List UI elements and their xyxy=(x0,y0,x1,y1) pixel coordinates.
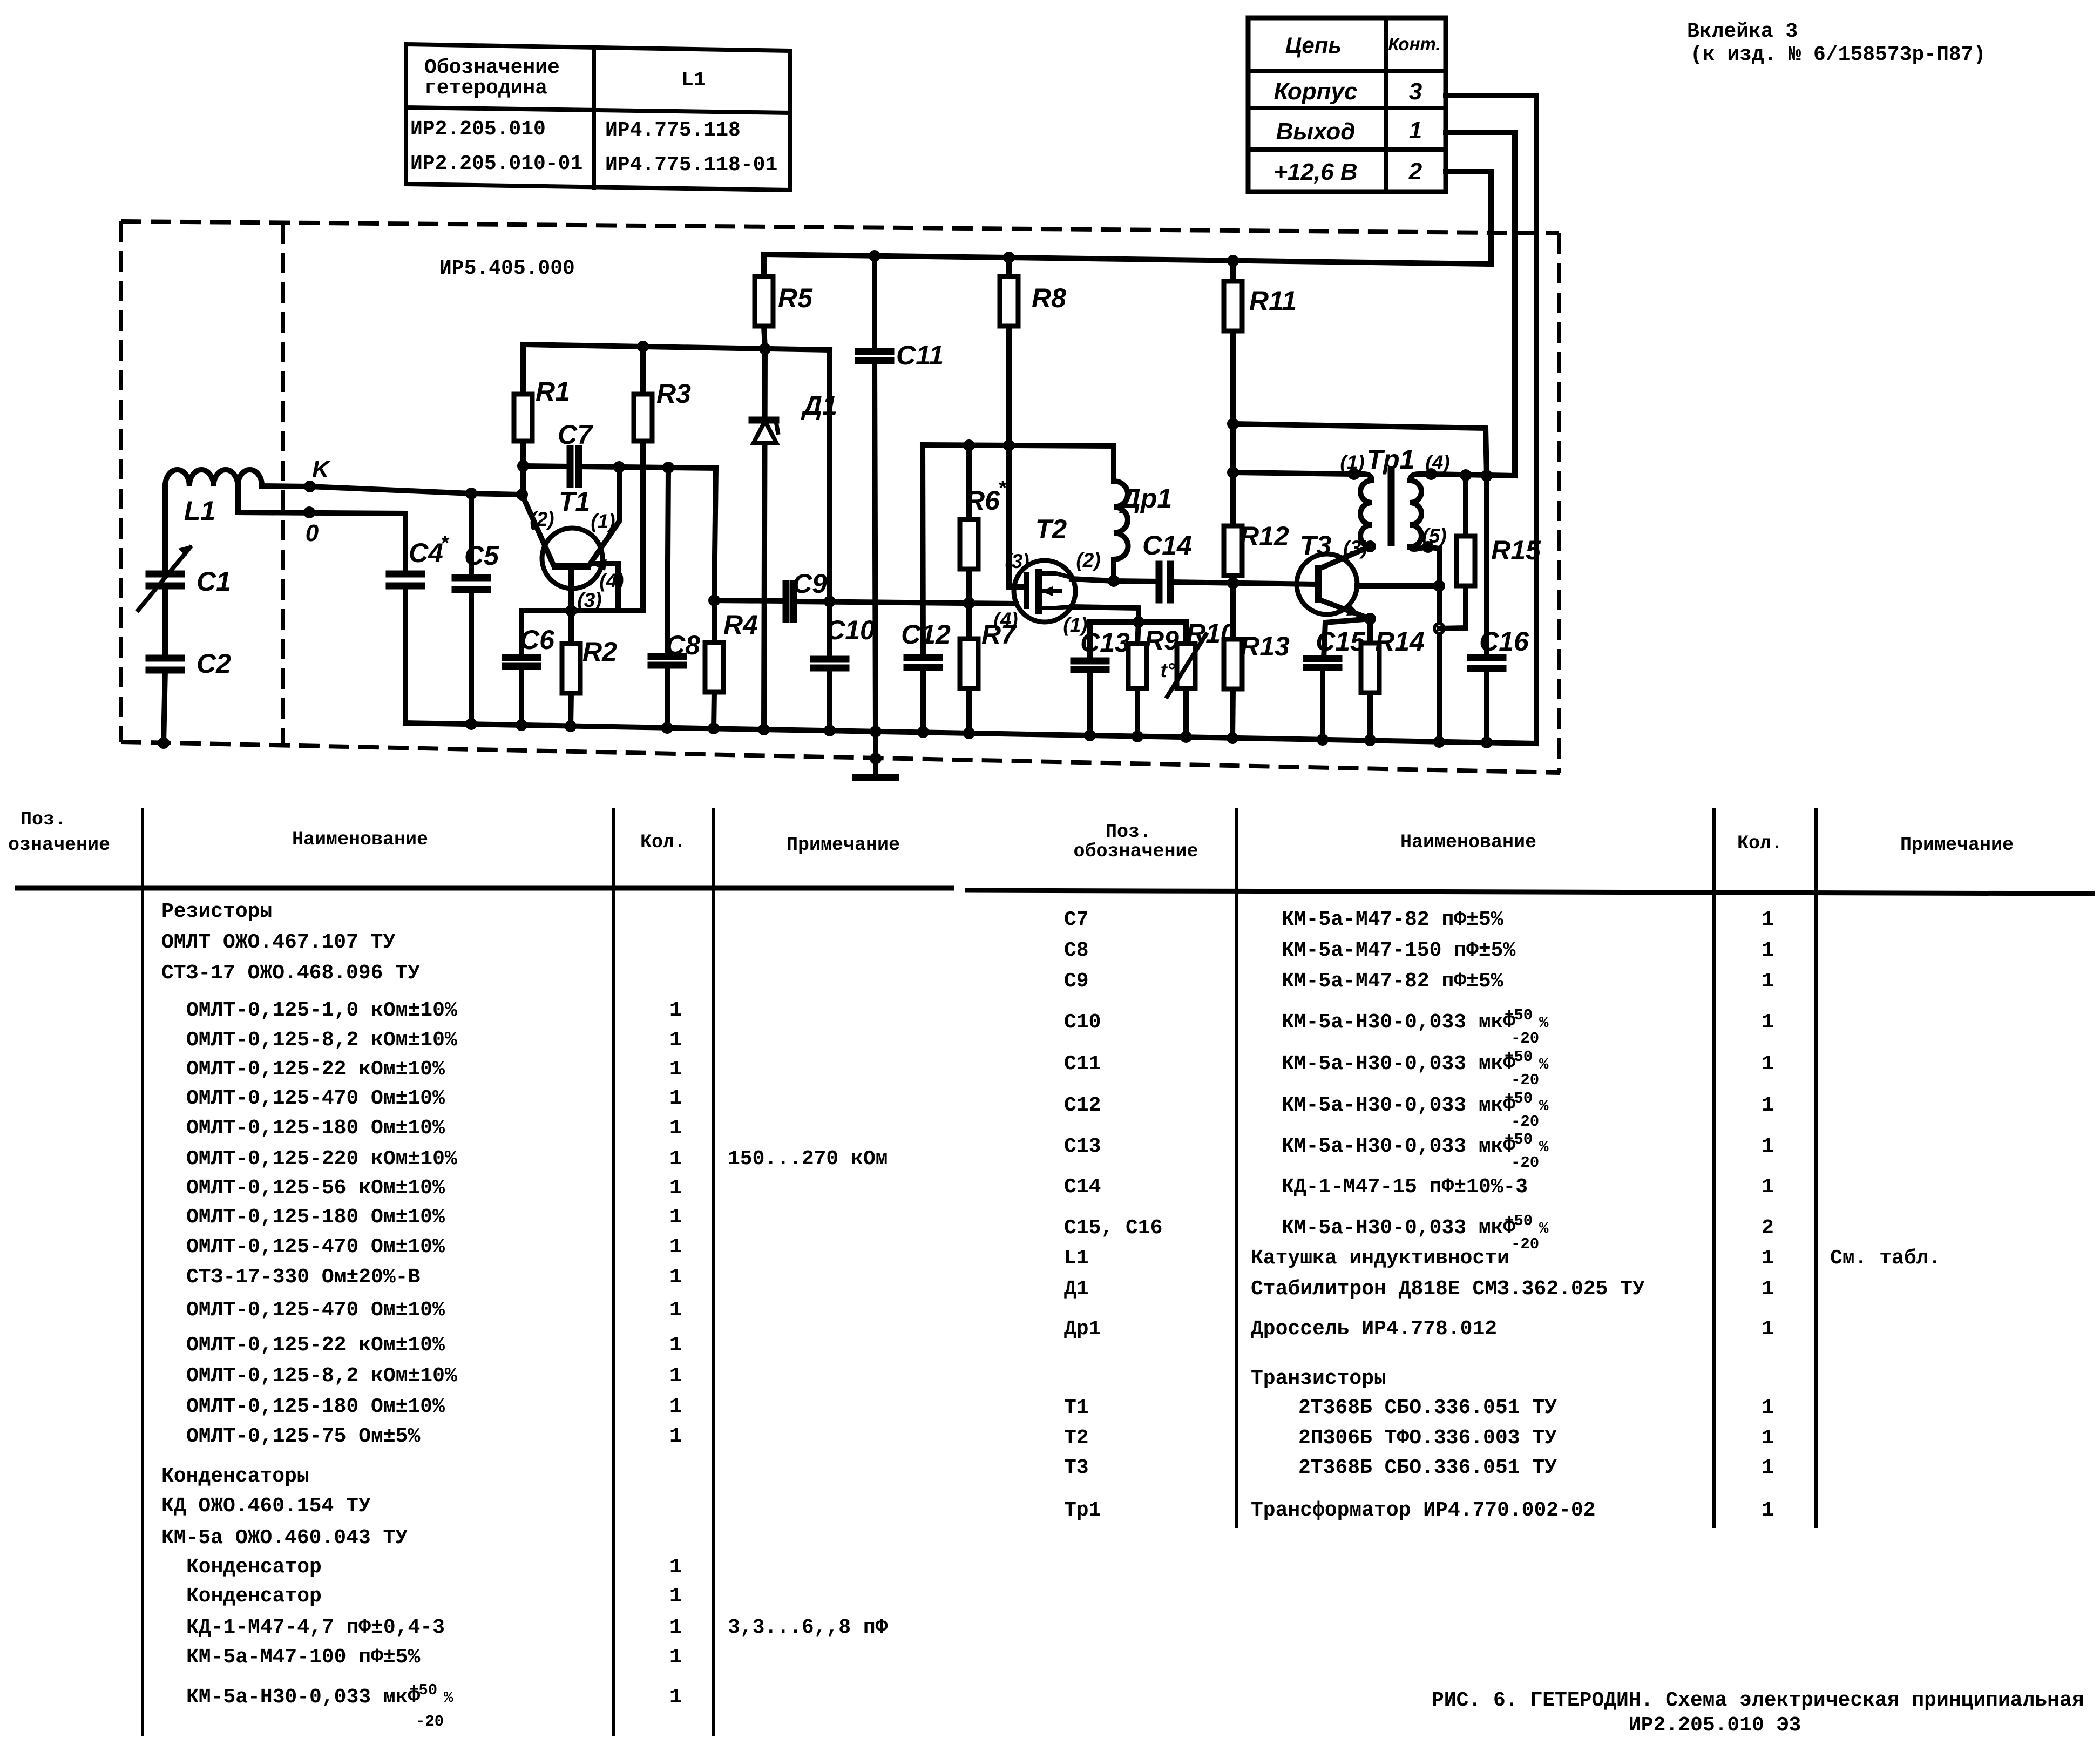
svg-text:1: 1 xyxy=(1409,117,1422,144)
node K xyxy=(304,456,331,492)
node R5 bottom / D1 top xyxy=(759,343,771,355)
svg-text:1: 1 xyxy=(669,1117,682,1140)
svg-text:1: 1 xyxy=(1762,908,1774,931)
svg-text:КМ-5а-Н30-0,033 мкФ: КМ-5а-Н30-0,033 мкФ xyxy=(1282,1216,1515,1240)
svg-text:1: 1 xyxy=(669,1235,682,1259)
node T1 collector top xyxy=(613,461,625,473)
svg-text:1: 1 xyxy=(669,1556,682,1579)
svg-text:3: 3 xyxy=(1409,78,1422,105)
svg-text:R11: R11 xyxy=(1249,286,1297,316)
svg-text:Катушка индуктивности: Катушка индуктивности xyxy=(1251,1247,1509,1270)
resistor R14 xyxy=(1361,619,1425,740)
svg-text:ОМЛТ-0,125-470 Ом±10%: ОМЛТ-0,125-470 Ом±10% xyxy=(186,1299,445,1322)
svg-text:-20: -20 xyxy=(1511,1030,1539,1047)
svg-text:КМ-5а-Н30-0,033 мкФ: КМ-5а-Н30-0,033 мкФ xyxy=(1282,1011,1515,1034)
node source row xyxy=(1133,616,1144,628)
resistor R8 xyxy=(1000,258,1066,445)
svg-text:КМ-5а ОЖО.460.043 ТУ: КМ-5а ОЖО.460.043 ТУ xyxy=(161,1526,408,1550)
svg-text:%: % xyxy=(1539,1138,1549,1156)
node Tp1 secondary top xyxy=(1425,468,1437,480)
heterodyne designation table xyxy=(406,44,790,190)
node R3 top xyxy=(637,341,649,353)
svg-text:ИР2.205.010: ИР2.205.010 xyxy=(410,118,546,141)
connector table Цепь/Конт. xyxy=(1248,18,1446,192)
svg-text:L1: L1 xyxy=(1064,1247,1089,1270)
svg-text:(к изд. № 6/158573р-П87): (к изд. № 6/158573р-П87) xyxy=(1690,43,1986,66)
wire R8 to T2 gate xyxy=(1009,445,1027,587)
svg-text:С14: С14 xyxy=(1064,1175,1101,1199)
svg-text:2П306Б ТФО.336.003 ТУ: 2П306Б ТФО.336.003 ТУ xyxy=(1298,1426,1557,1450)
wire T2 drain line W3 xyxy=(1072,579,1318,584)
svg-text:+50: +50 xyxy=(1505,1006,1533,1024)
resistor R3 xyxy=(634,347,691,611)
transistor T3 xyxy=(1297,530,1370,619)
svg-text:R13: R13 xyxy=(1240,631,1290,661)
svg-text:R15: R15 xyxy=(1491,535,1541,565)
svg-text:R4: R4 xyxy=(723,610,758,640)
svg-text:Поз.: Поз. xyxy=(1106,821,1151,843)
svg-text:С8: С8 xyxy=(1064,939,1089,962)
svg-text:R5: R5 xyxy=(778,283,813,313)
svg-text:R2: R2 xyxy=(582,637,617,667)
svg-text:1: 1 xyxy=(1762,1175,1774,1199)
resistor R9 xyxy=(1128,622,1179,736)
svg-text:ОМЛТ-0,125-8,2 кОм±10%: ОМЛТ-0,125-8,2 кОм±10% xyxy=(186,1029,457,1052)
wire emitter row C6 to T1 xyxy=(521,611,618,658)
svg-text:C2: C2 xyxy=(197,648,231,679)
svg-text:РИС. 6. ГЕТЕРОДИН. Схема элект: РИС. 6. ГЕТЕРОДИН. Схема электрическая п… xyxy=(1432,1689,2084,1712)
node T1 base branch xyxy=(516,489,528,501)
svg-text:(4): (4) xyxy=(993,608,1018,631)
svg-text:C10: C10 xyxy=(825,615,875,645)
svg-text:1: 1 xyxy=(669,1425,682,1448)
resistor R13 xyxy=(1224,583,1290,738)
svg-text:%: % xyxy=(444,1689,453,1707)
svg-text:C6: C6 xyxy=(520,625,555,655)
svg-text:-20: -20 xyxy=(1511,1154,1539,1172)
svg-text:1: 1 xyxy=(1762,1052,1774,1076)
svg-text:Конденсатор: Конденсатор xyxy=(186,1585,322,1608)
svg-text:Примечание: Примечание xyxy=(787,834,900,856)
wire C5 leads xyxy=(469,493,474,724)
svg-text:150...270 кОм: 150...270 кОм xyxy=(728,1147,888,1171)
svg-text:+12,6 В: +12,6 В xyxy=(1273,159,1357,185)
node on R11/R12 vertical xyxy=(1227,466,1239,478)
svg-text:-20: -20 xyxy=(416,1713,444,1730)
wire W2 R1/R3/R5 tops xyxy=(523,344,830,350)
svg-text:C1: C1 xyxy=(197,566,231,597)
svg-text:3,3...6,,8 пФ: 3,3...6,,8 пФ xyxy=(728,1616,888,1639)
svg-text:С7: С7 xyxy=(1064,908,1089,931)
svg-text:1: 1 xyxy=(669,1087,682,1110)
svg-text:ИР5.405.000: ИР5.405.000 xyxy=(439,257,575,280)
svg-text:C13: C13 xyxy=(1080,627,1130,658)
svg-text:R8: R8 xyxy=(1032,283,1066,313)
svg-text:(4): (4) xyxy=(599,570,624,592)
wire tap O of L1 down and right to C4 xyxy=(238,486,405,574)
svg-text:Поз.: Поз. xyxy=(21,809,66,830)
node R8 bottom on W4 xyxy=(1003,439,1015,451)
svg-text:Резисторы: Резисторы xyxy=(161,900,272,923)
svg-text:2Т368Б СБО.336.051 ТУ: 2Т368Б СБО.336.051 ТУ xyxy=(1298,1396,1557,1419)
svg-text:Т1: Т1 xyxy=(1064,1396,1089,1419)
svg-text:1: 1 xyxy=(669,999,682,1022)
wire W4 choke feed line xyxy=(923,445,1114,446)
svg-text:С11: С11 xyxy=(1064,1052,1101,1076)
svg-text:Др1: Др1 xyxy=(1119,483,1172,513)
svg-text:Конт.: Конт. xyxy=(1388,34,1440,54)
node R11 bottom xyxy=(1227,418,1239,430)
svg-text:ИР2.205.010-01: ИР2.205.010-01 xyxy=(410,152,582,175)
svg-text:-20: -20 xyxy=(1511,1235,1539,1253)
svg-text:t°: t° xyxy=(1160,659,1175,681)
svg-text:1: 1 xyxy=(1762,1317,1774,1341)
wire C1 to C2 xyxy=(162,586,168,658)
node T3 emitter xyxy=(1364,613,1376,625)
thermistor R10 xyxy=(1160,618,1236,737)
svg-text:R1: R1 xyxy=(536,376,570,407)
wire T3 case pin to (5) line xyxy=(1357,583,1439,589)
svg-text:*: * xyxy=(441,532,449,554)
svg-text:C15: C15 xyxy=(1316,626,1366,657)
node chassis xyxy=(158,737,170,749)
svg-text:ОМЛТ-0,125-180 Ом±10%: ОМЛТ-0,125-180 Ом±10% xyxy=(186,1206,445,1229)
node C8 top xyxy=(662,462,674,474)
svg-text:С12: С12 xyxy=(1064,1094,1101,1117)
dashed internal partition xyxy=(281,223,285,746)
svg-text:КМ-5а-Н30-0,033 мкФ: КМ-5а-Н30-0,033 мкФ xyxy=(1282,1094,1515,1117)
svg-text:R3: R3 xyxy=(656,378,691,409)
junction dots on ground bus xyxy=(465,718,1493,748)
svg-text:КМ-5а-Н30-0,033 мкФ: КМ-5а-Н30-0,033 мкФ xyxy=(1282,1135,1515,1158)
svg-text:2Т368Б СБО.336.051 ТУ: 2Т368Б СБО.336.051 ТУ xyxy=(1298,1456,1557,1479)
svg-text:1: 1 xyxy=(669,1616,682,1639)
svg-text:ОМЛТ ОЖО.467.107 ТУ: ОМЛТ ОЖО.467.107 ТУ xyxy=(161,931,395,954)
ground symbol xyxy=(852,732,899,777)
wire pin1 Выход to output node xyxy=(1446,132,1515,476)
svg-text:+50: +50 xyxy=(1505,1048,1533,1066)
svg-text:C9: C9 xyxy=(792,569,827,599)
svg-text:Стабилитрон Д818Е СМЗ.362.025: Стабилитрон Д818Е СМЗ.362.025 ТУ xyxy=(1251,1277,1645,1301)
svg-text:R14: R14 xyxy=(1375,626,1425,657)
output line with Tp1 (4), R15, C16 xyxy=(1431,474,1515,476)
svg-text:гетеродина: гетеродина xyxy=(424,77,547,100)
svg-text:Цепь: Цепь xyxy=(1285,32,1342,58)
inductor L1 xyxy=(165,470,262,526)
svg-text:Кол.: Кол. xyxy=(640,831,686,853)
svg-text:L1: L1 xyxy=(681,69,706,92)
wire W1 base line with C7 xyxy=(523,466,716,468)
svg-text:Др1: Др1 xyxy=(1064,1317,1101,1341)
capacitor C14 xyxy=(1142,530,1192,600)
svg-text:%: % xyxy=(1539,1056,1549,1073)
svg-text:Т3: Т3 xyxy=(1064,1456,1089,1479)
svg-text:1: 1 xyxy=(1762,1247,1774,1270)
svg-text:Конденсаторы: Конденсаторы xyxy=(161,1465,309,1488)
svg-text:T2: T2 xyxy=(1035,514,1067,544)
svg-text:(2): (2) xyxy=(530,508,554,530)
capacitor C16 xyxy=(1471,476,1529,742)
svg-text:T3: T3 xyxy=(1300,530,1332,560)
svg-text:+50: +50 xyxy=(1505,1090,1533,1107)
svg-text:1: 1 xyxy=(1762,1135,1774,1158)
svg-text:Корпус: Корпус xyxy=(1274,78,1358,105)
svg-text:Конденсатор: Конденсатор xyxy=(186,1556,322,1579)
node R4 top xyxy=(708,594,720,606)
svg-text:Обозначение: Обозначение xyxy=(424,56,560,79)
figure caption xyxy=(1432,1689,2084,1737)
node Tp1 primary top xyxy=(1348,468,1360,480)
inset note Вклейка 3 xyxy=(1687,20,1986,66)
dashed enclosure border xyxy=(121,221,1560,773)
wire collector feed to Tp1 primary xyxy=(1233,472,1354,474)
wire C2 to chassis point on border xyxy=(164,670,165,743)
transformer Tp1 xyxy=(1340,444,1449,549)
svg-text:1: 1 xyxy=(1762,1094,1774,1117)
svg-text:K: K xyxy=(312,456,331,483)
node signal/C10 xyxy=(824,596,836,607)
svg-text:C4: C4 xyxy=(409,538,443,568)
wire C4 to ground bus xyxy=(403,586,408,723)
svg-text:R6: R6 xyxy=(965,485,1000,516)
svg-text:%: % xyxy=(1539,1097,1549,1115)
svg-text:С13: С13 xyxy=(1064,1135,1101,1158)
svg-text:Транзисторы: Транзисторы xyxy=(1251,1367,1386,1390)
svg-text:2: 2 xyxy=(1408,158,1422,185)
svg-text:ОМЛТ-0,125-1,0 кОм±10%: ОМЛТ-0,125-1,0 кОм±10% xyxy=(186,999,457,1022)
wire R11 bottom to output node xyxy=(1233,424,1487,476)
svg-text:2: 2 xyxy=(1762,1216,1774,1240)
svg-text:(2): (2) xyxy=(1076,549,1100,571)
svg-text:1: 1 xyxy=(1762,1396,1774,1419)
wire node K from L1 to T1 base branch xyxy=(262,486,522,495)
svg-text:обозначение: обозначение xyxy=(1073,841,1198,862)
svg-text:Т2: Т2 xyxy=(1064,1426,1089,1450)
svg-text:Трансформатор ИР4.770.002-02: Трансформатор ИР4.770.002-02 xyxy=(1251,1499,1596,1522)
node T3 collector / primary bottom xyxy=(1364,540,1376,552)
svg-text:L1: L1 xyxy=(184,496,215,526)
capacitor C9 xyxy=(786,569,827,619)
node C11 top on rail xyxy=(869,250,880,262)
resistor R1 xyxy=(514,344,570,466)
svg-text:%: % xyxy=(1539,1014,1549,1032)
svg-text:Вклейка 3: Вклейка 3 xyxy=(1687,20,1798,43)
zener diode Д1 xyxy=(752,349,837,729)
node O xyxy=(303,506,319,546)
svg-text:ОМЛТ-0,125-8,2 кОм±10%: ОМЛТ-0,125-8,2 кОм±10% xyxy=(186,1364,457,1388)
wire signal line with C9 xyxy=(714,600,1016,604)
capacitor C2 xyxy=(149,648,231,679)
svg-text:C11: C11 xyxy=(896,340,944,370)
svg-text:СТЗ-17 ОЖО.468.096 ТУ: СТЗ-17 ОЖО.468.096 ТУ xyxy=(161,962,420,985)
capacitor C11 xyxy=(858,256,944,732)
node T1 emitter junction xyxy=(565,605,577,617)
svg-text:R9: R9 xyxy=(1144,625,1179,655)
svg-text:С15, С16: С15, С16 xyxy=(1064,1216,1162,1240)
transistor T2 MOSFET xyxy=(993,514,1100,636)
svg-text:КМ-5а-М47-82 пФ±5%: КМ-5а-М47-82 пФ±5% xyxy=(1282,970,1503,993)
svg-text:ОМЛТ-0,125-56 кОм±10%: ОМЛТ-0,125-56 кОм±10% xyxy=(186,1176,445,1200)
wire pin3 Корпус to ground bus xyxy=(1446,96,1536,743)
svg-text:1: 1 xyxy=(669,1646,682,1669)
svg-text:Д1: Д1 xyxy=(1064,1277,1089,1301)
svg-text:(1): (1) xyxy=(591,510,615,532)
capacitor C5 xyxy=(455,540,499,590)
svg-text:ОМЛТ-0,125-180 Ом±10%: ОМЛТ-0,125-180 Ом±10% xyxy=(186,1395,445,1418)
svg-text:+50: +50 xyxy=(409,1681,437,1699)
svg-text:С9: С9 xyxy=(1064,970,1089,993)
svg-text:1: 1 xyxy=(1762,1456,1774,1479)
node R8 top on rail xyxy=(1003,252,1015,263)
svg-text:1: 1 xyxy=(669,1266,682,1289)
resistor R7 xyxy=(960,603,1017,733)
svg-text:См. табл.: См. табл. xyxy=(1830,1247,1941,1270)
capacitor C12 xyxy=(901,619,951,667)
node R15 top xyxy=(1460,469,1472,481)
resistor R6* xyxy=(960,445,1007,603)
left parts table frame xyxy=(8,808,954,1736)
svg-text:КД-1-М47-15 пФ±10%-3: КД-1-М47-15 пФ±10%-3 xyxy=(1282,1175,1528,1199)
svg-text:КМ-5а-М47-82 пФ±5%: КМ-5а-М47-82 пФ±5% xyxy=(1282,908,1503,931)
wire W1 corner down to signal node xyxy=(714,468,716,600)
svg-text:C7: C7 xyxy=(558,420,593,450)
svg-text:1: 1 xyxy=(669,1029,682,1052)
wire C12 vertical xyxy=(923,445,923,732)
svg-text:+50: +50 xyxy=(1505,1212,1533,1230)
svg-text:ОМЛТ-0,125-470 Ом±10%: ОМЛТ-0,125-470 Ом±10% xyxy=(186,1087,445,1110)
svg-text:ИР4.775.118-01: ИР4.775.118-01 xyxy=(605,153,777,177)
svg-text:ОМЛТ-0,125-180 Ом±10%: ОМЛТ-0,125-180 Ом±10% xyxy=(186,1117,445,1140)
svg-text:ИР4.775.118: ИР4.775.118 xyxy=(605,119,741,142)
capacitor C15 xyxy=(1306,619,1370,740)
svg-text:0: 0 xyxy=(306,520,319,546)
svg-text:Дроссель ИР4.778.012: Дроссель ИР4.778.012 xyxy=(1251,1317,1497,1341)
right parts table rows xyxy=(1064,908,1941,1522)
svg-text:1: 1 xyxy=(669,1299,682,1322)
resistor R15 xyxy=(1439,475,1541,628)
svg-text:C14: C14 xyxy=(1142,530,1192,560)
svg-text:1: 1 xyxy=(669,1585,682,1608)
svg-text:(3): (3) xyxy=(1005,550,1029,572)
node R6 top xyxy=(963,439,975,451)
svg-text:1: 1 xyxy=(669,1206,682,1229)
svg-text:-20: -20 xyxy=(1511,1071,1539,1089)
wire R5 node down through C10 to bus xyxy=(827,350,832,731)
node R6/R7 divider on signal line xyxy=(963,597,975,609)
wire pin2 +12,6V to supply rail xyxy=(1446,172,1491,264)
wire R11 to R12 vertical xyxy=(1230,424,1236,526)
svg-text:ОМЛТ-0,125-22 кОм±10%: ОМЛТ-0,125-22 кОм±10% xyxy=(186,1058,445,1081)
svg-text:Тр1: Тр1 xyxy=(1064,1499,1101,1522)
svg-text:Кол.: Кол. xyxy=(1737,833,1783,854)
svg-text:Примечание: Примечание xyxy=(1900,834,2014,856)
svg-text:Наименование: Наименование xyxy=(292,829,428,850)
svg-text:(3): (3) xyxy=(577,589,601,611)
right parts table frame xyxy=(965,808,2095,1528)
svg-text:ОМЛТ-0,125-75 Ом±5%: ОМЛТ-0,125-75 Ом±5% xyxy=(186,1425,420,1448)
node R15 bottom junction xyxy=(1434,624,1444,633)
svg-text:С10: С10 xyxy=(1064,1011,1101,1034)
transistor T1 xyxy=(522,468,643,611)
svg-text:КД-1-М47-4,7 пФ±0,4-3: КД-1-М47-4,7 пФ±0,4-3 xyxy=(186,1616,445,1639)
svg-text:Выход: Выход xyxy=(1276,118,1356,145)
node case line xyxy=(1433,580,1445,592)
svg-text:1: 1 xyxy=(1762,1277,1774,1301)
svg-text:*: * xyxy=(998,477,1007,499)
svg-text:-20: -20 xyxy=(1511,1113,1539,1131)
svg-text:C12: C12 xyxy=(901,619,951,650)
node Tp1 secondary bottom (5) xyxy=(1422,541,1434,553)
svg-text:1: 1 xyxy=(669,1058,682,1081)
capacitor C7 xyxy=(558,420,593,484)
svg-text:1: 1 xyxy=(669,1395,682,1418)
svg-text:1: 1 xyxy=(669,1334,682,1357)
svg-text:1: 1 xyxy=(669,1364,682,1388)
wire W1 left end to K node xyxy=(520,466,526,495)
svg-text:ИР2.205.010 Э3: ИР2.205.010 Э3 xyxy=(1629,1714,1801,1737)
svg-text:1: 1 xyxy=(669,1176,682,1200)
node R12 bottom on W3 xyxy=(1227,577,1239,589)
svg-text:C16: C16 xyxy=(1479,626,1529,657)
capacitor C13 xyxy=(1074,622,1130,735)
resistor R4 xyxy=(705,600,758,728)
svg-text:означение: означение xyxy=(8,834,110,856)
resistor R11 xyxy=(1224,261,1297,424)
svg-text:КМ-5а-Н30-0,033 мкФ: КМ-5а-Н30-0,033 мкФ xyxy=(186,1686,420,1709)
capacitor C4* xyxy=(389,532,449,586)
svg-text:ОМЛТ-0,125-22 кОм±10%: ОМЛТ-0,125-22 кОм±10% xyxy=(186,1334,445,1357)
node Dr1 bottom / T2 drain xyxy=(1108,575,1120,587)
svg-text:+50: +50 xyxy=(1505,1131,1533,1148)
choke Др1 xyxy=(1114,446,1172,581)
svg-text:1: 1 xyxy=(1762,970,1774,993)
svg-text:C8: C8 xyxy=(666,630,700,660)
left parts table rows xyxy=(161,900,888,1730)
wire T2 source to C13/R9/R10 row xyxy=(1072,607,1186,622)
capacitor C6 xyxy=(505,625,555,725)
svg-text:1: 1 xyxy=(1762,1011,1774,1034)
svg-text:КМ-5а-М47-150 пФ±5%: КМ-5а-М47-150 пФ±5% xyxy=(1282,939,1515,962)
ground bus xyxy=(405,723,1536,743)
svg-text:1: 1 xyxy=(1762,939,1774,962)
capacitor C8 xyxy=(651,468,700,728)
svg-text:Tp1: Tp1 xyxy=(1367,444,1415,475)
svg-text:1: 1 xyxy=(669,1686,682,1709)
wire L1 left lead down to C1 xyxy=(162,486,168,574)
node C16 top xyxy=(1481,470,1493,482)
svg-text:R12: R12 xyxy=(1239,521,1289,551)
capacitor C10 xyxy=(814,615,875,668)
svg-text:КМ-5а-М47-100 пФ±5%: КМ-5а-М47-100 пФ±5% xyxy=(186,1646,420,1669)
svg-text:1: 1 xyxy=(1762,1426,1774,1450)
wire secondary (5) down xyxy=(1428,547,1439,742)
resistor R2 xyxy=(562,611,617,726)
svg-text:КМ-5а-Н30-0,033 мкФ: КМ-5а-Н30-0,033 мкФ xyxy=(1282,1052,1515,1076)
node R11 top on rail xyxy=(1227,255,1239,267)
svg-text:Наименование: Наименование xyxy=(1400,831,1536,853)
node R1 bottom xyxy=(517,460,529,472)
svg-text:%: % xyxy=(1539,1220,1549,1238)
node C5 top xyxy=(465,488,477,499)
svg-text:КД ОЖО.460.154 ТУ: КД ОЖО.460.154 ТУ xyxy=(161,1495,371,1518)
svg-text:ОМЛТ-0,125-470 Ом±10%: ОМЛТ-0,125-470 Ом±10% xyxy=(186,1235,445,1259)
svg-text:1: 1 xyxy=(669,1147,682,1171)
svg-text:1: 1 xyxy=(1762,1499,1774,1522)
svg-text:СТЗ-17-330 Ом±20%-В: СТЗ-17-330 Ом±20%-В xyxy=(186,1266,420,1289)
svg-text:T1: T1 xyxy=(559,486,590,517)
variable capacitor C1 xyxy=(138,545,231,610)
resistor R12 xyxy=(1224,521,1289,583)
